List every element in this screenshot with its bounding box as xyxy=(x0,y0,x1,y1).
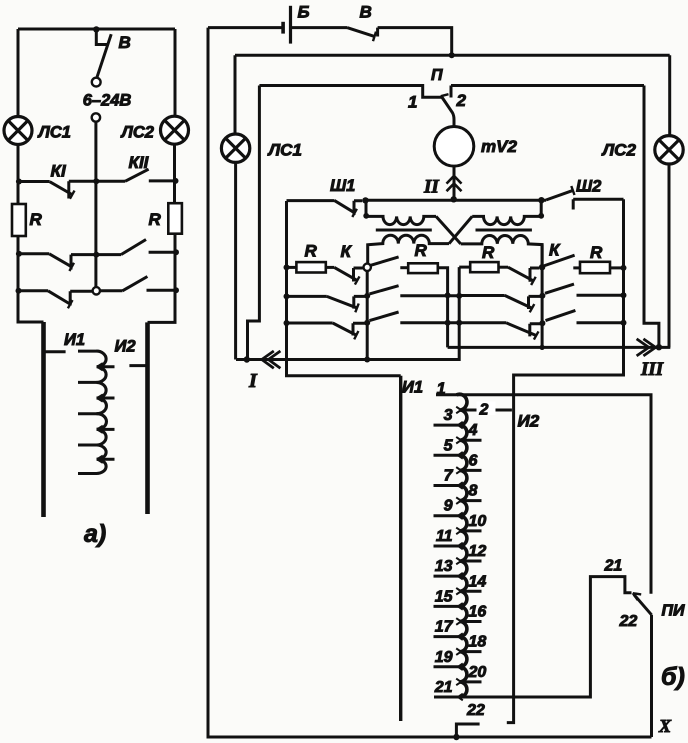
svg-text:И2: И2 xyxy=(518,412,540,431)
svg-text:В: В xyxy=(360,3,372,22)
svg-text:Ш1: Ш1 xyxy=(330,177,355,195)
svg-text:ПИ: ПИ xyxy=(662,603,686,620)
svg-text:20: 20 xyxy=(468,664,487,681)
svg-text:5: 5 xyxy=(444,437,454,454)
svg-text:10: 10 xyxy=(469,513,487,530)
svg-text:И1: И1 xyxy=(402,379,423,397)
svg-text:R: R xyxy=(305,242,318,261)
svg-text:R: R xyxy=(482,243,495,262)
svg-text:б): б) xyxy=(661,663,685,691)
svg-text:16: 16 xyxy=(469,603,487,620)
svg-text:R: R xyxy=(149,210,162,229)
svg-text:X: X xyxy=(658,716,672,736)
svg-text:И2: И2 xyxy=(115,338,136,356)
svg-text:19: 19 xyxy=(435,649,453,666)
svg-text:21: 21 xyxy=(604,558,623,575)
svg-text:ЛС1: ЛС1 xyxy=(267,141,302,160)
svg-text:7: 7 xyxy=(444,468,454,485)
svg-text:КI: КI xyxy=(51,162,67,181)
svg-text:6–24В: 6–24В xyxy=(83,92,132,110)
svg-text:II: II xyxy=(423,177,439,198)
svg-text:R: R xyxy=(30,210,43,229)
svg-text:КII: КII xyxy=(129,153,150,172)
svg-text:К: К xyxy=(549,241,561,260)
svg-text:22: 22 xyxy=(466,702,485,719)
svg-text:К: К xyxy=(341,242,353,261)
svg-text:В: В xyxy=(119,33,131,52)
svg-text:22: 22 xyxy=(619,613,638,630)
svg-text:14: 14 xyxy=(469,573,487,590)
svg-text:R: R xyxy=(415,241,428,260)
svg-text:Ш2: Ш2 xyxy=(576,178,601,196)
svg-text:а): а) xyxy=(84,520,106,548)
svg-text:R: R xyxy=(590,243,603,262)
svg-text:21: 21 xyxy=(434,679,453,696)
svg-text:15: 15 xyxy=(435,588,454,605)
svg-text:Б: Б xyxy=(298,3,310,22)
svg-text:11: 11 xyxy=(436,528,453,545)
svg-text:12: 12 xyxy=(469,543,487,560)
svg-text:8: 8 xyxy=(469,483,478,500)
svg-text:ЛС2: ЛС2 xyxy=(121,124,154,142)
svg-text:И1: И1 xyxy=(64,331,85,349)
svg-text:ЛС1: ЛС1 xyxy=(38,124,71,142)
svg-text:9: 9 xyxy=(444,498,453,515)
svg-text:П: П xyxy=(431,67,443,84)
svg-text:3: 3 xyxy=(444,407,453,424)
svg-text:13: 13 xyxy=(435,558,453,575)
svg-text:4: 4 xyxy=(468,422,478,439)
svg-text:18: 18 xyxy=(469,634,487,651)
svg-text:I: I xyxy=(248,370,258,392)
svg-text:mV2: mV2 xyxy=(481,137,517,156)
svg-text:2: 2 xyxy=(456,91,467,110)
svg-text:ЛС2: ЛС2 xyxy=(601,141,637,160)
svg-text:6: 6 xyxy=(469,452,478,469)
svg-text:III: III xyxy=(640,359,664,380)
svg-text:17: 17 xyxy=(435,619,454,636)
svg-text:1: 1 xyxy=(408,93,417,112)
svg-text:2: 2 xyxy=(479,402,489,419)
